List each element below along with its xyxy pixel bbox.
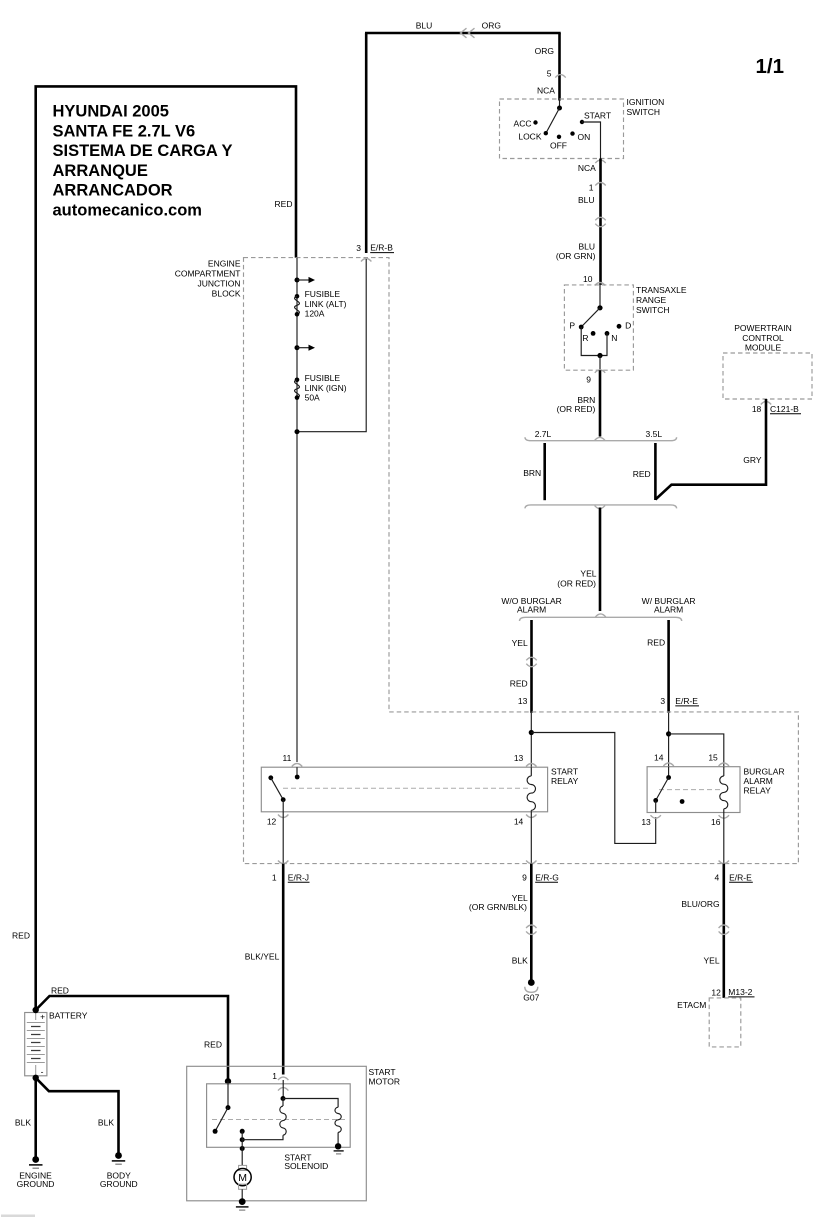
svg-text:RED: RED (12, 930, 30, 940)
svg-text:3: 3 (660, 696, 665, 706)
svg-text:LOCK: LOCK (518, 132, 541, 142)
connector start motor pin 1 (278, 1077, 288, 1080)
pin 16 label (711, 817, 721, 827)
fusible link (IGN) 50A (295, 378, 300, 400)
option bar bottom (525, 505, 677, 509)
wire BRN (OR RED) to option bar (599, 370, 602, 436)
svg-text:FUSIBLE: FUSIBLE (305, 289, 341, 299)
motor M armature (234, 1165, 251, 1201)
battery label (49, 1010, 88, 1020)
svg-text:E/R-E: E/R-E (729, 872, 752, 882)
svg-text:GRY: GRY (743, 455, 762, 465)
label RED on left battery wire (12, 930, 30, 940)
wire BLK battery negative to body ground (36, 1078, 119, 1156)
svg-text:14: 14 (654, 752, 664, 762)
svg-text:COMPARTMENT: COMPARTMENT (175, 268, 241, 278)
svg-text:P: P (569, 321, 575, 331)
solenoid output contact column (240, 1129, 245, 1166)
svg-text:IGNITION: IGNITION (627, 97, 665, 107)
svg-text:2.7L: 2.7L (535, 429, 552, 439)
svg-text:E/R-B: E/R-B (370, 242, 393, 252)
connector start relay pin 11 (292, 764, 302, 767)
svg-text:(OR GRN/BLK): (OR GRN/BLK) (469, 902, 527, 912)
svg-text:3: 3 (356, 243, 361, 253)
svg-text:M: M (238, 1172, 247, 1184)
connector pin 5 (555, 75, 565, 78)
svg-text:+: + (40, 1012, 45, 1022)
svg-text:CONTROL: CONTROL (742, 333, 784, 343)
option bar 2.7L/3.5L top (525, 437, 677, 441)
svg-text:14: 14 (514, 817, 524, 827)
connector boundary exit E/R-E (719, 861, 729, 864)
label NCA above ignition switch (537, 85, 555, 95)
ground engine (17, 1156, 55, 1189)
node battery negative terminal (33, 1075, 39, 1081)
label 3.5L (646, 429, 663, 439)
svg-text:-: - (41, 1067, 44, 1077)
wire E/R-B branch inside junction block (297, 259, 366, 432)
start motor label (369, 1067, 400, 1086)
svg-text:50A: 50A (305, 393, 320, 403)
pin 3 connector E/R-E (660, 696, 699, 706)
svg-text:4: 4 (714, 872, 719, 882)
pin 14 label (514, 817, 524, 827)
wire pin 14 down to boundary (530, 812, 532, 864)
svg-text:YEL: YEL (512, 638, 528, 648)
ignition switch U1 dashed box (500, 99, 624, 159)
svg-text:RED: RED (204, 1039, 222, 1049)
node junction block output (295, 429, 300, 434)
svg-text:M13-2: M13-2 (728, 987, 752, 997)
svg-text:SOLENOID: SOLENOID (284, 1161, 328, 1171)
page number 1/1 (756, 55, 785, 78)
svg-text:1: 1 (272, 1071, 277, 1081)
start relay coil (527, 767, 535, 812)
svg-text:13: 13 (514, 753, 524, 763)
svg-text:YEL: YEL (580, 569, 596, 579)
start relay mechanical dashed link (283, 787, 529, 789)
svg-text:RED: RED (633, 469, 651, 479)
svg-text:START: START (551, 766, 578, 776)
label ORG vertical (535, 46, 554, 56)
connector transaxle entry (595, 283, 605, 286)
transaxle switch internals (579, 285, 622, 370)
svg-text:BURGLAR: BURGLAR (744, 767, 785, 777)
pin 12 connector M13-2 (711, 987, 754, 998)
wire ORG vertical down to ignition switch (558, 33, 561, 101)
svg-text:R: R (582, 333, 588, 343)
start motor M1 outer box (187, 1066, 367, 1201)
label RED on title box right wire (275, 199, 293, 209)
battery B1 (25, 1012, 47, 1077)
connector inline BLU/ORG-YEL (719, 925, 729, 934)
svg-text:E/R-E: E/R-E (675, 696, 698, 706)
wire BLK/YEL into solenoid (282, 1080, 284, 1099)
label BLU (578, 195, 595, 205)
svg-text:(OR RED): (OR RED) (557, 404, 596, 414)
fusible link (ALT) label (305, 289, 347, 319)
label GRY (743, 455, 762, 465)
pin 9 (586, 374, 591, 384)
label BRN (OR RED) (557, 395, 596, 414)
label BLU/ORG (681, 899, 719, 909)
wire RED battery positive to start motor (36, 996, 228, 1081)
pin 13 label (514, 753, 524, 763)
svg-text:3.5L: 3.5L (646, 429, 663, 439)
wire YEL (OR RED) down to alarm option bar (599, 508, 602, 612)
svg-text:BLK/YEL: BLK/YEL (245, 951, 280, 961)
label YEL (OR GRN/BLK) (469, 893, 528, 912)
connector bar1 center (595, 437, 605, 440)
svg-text:15: 15 (708, 752, 718, 762)
label RED (647, 637, 665, 647)
ground body (100, 1152, 138, 1189)
pin 1 connector E/R-J (272, 872, 310, 882)
svg-text:E/R-G: E/R-G (535, 872, 559, 882)
label BLK (512, 955, 528, 965)
powertrain control module dashed box (723, 353, 812, 399)
burglar relay coil (720, 767, 728, 813)
svg-text:BATTERY: BATTERY (49, 1010, 88, 1020)
wire RED right drop to burglar relay (667, 620, 670, 713)
connector inline BLU (595, 217, 605, 226)
start relay label (551, 766, 579, 786)
connector bar2 center (595, 506, 605, 509)
svg-text:RED: RED (647, 637, 665, 647)
svg-text:10: 10 (583, 274, 593, 284)
fusible link (IGN) label (305, 373, 347, 402)
connector boundary exit E/R-J (278, 861, 288, 864)
svg-text:11: 11 (282, 753, 291, 763)
wire to start relay pin 13 inside boundary (530, 713, 532, 767)
svg-text:NCA: NCA (537, 85, 555, 95)
wire E/R-E feed inside boundary to burglar relay (668, 713, 670, 767)
svg-text:RED: RED (275, 199, 293, 209)
start relay K1 box (261, 767, 547, 812)
ground G07 (523, 979, 539, 1003)
label 2.7L (535, 429, 552, 439)
svg-text:ORG: ORG (535, 46, 554, 56)
svg-text:ALARM: ALARM (744, 776, 773, 786)
wire top horizontal BLU/ORG (365, 32, 561, 35)
svg-text:E/R-J: E/R-J (288, 872, 309, 882)
node junction with arrow tap to alternator (295, 277, 316, 283)
label RED battery jumper (51, 986, 69, 996)
svg-text:13: 13 (641, 817, 651, 827)
svg-text:5: 5 (547, 68, 552, 78)
svg-text:START: START (584, 110, 611, 120)
wire NCA/BLU from ignition to transaxle switch (599, 159, 602, 285)
svg-text:ENGINE: ENGINE (208, 258, 241, 268)
pin 3 connector E/R-B (356, 242, 394, 252)
svg-text:RED: RED (510, 678, 528, 688)
wire BLK battery negative to engine ground (34, 1078, 37, 1160)
transaxle range switch dashed box (564, 285, 633, 370)
pin 10 (583, 274, 593, 284)
svg-text:1: 1 (272, 872, 277, 882)
connector inline YEL/RED (526, 657, 536, 666)
connector burglar relay pin 15 (719, 763, 729, 766)
ignition switch label (627, 97, 665, 117)
engine compartment junction block / engine room dashed boundary (244, 258, 799, 864)
label NCA below ignition (578, 163, 596, 173)
svg-text:(OR GRN): (OR GRN) (556, 251, 596, 261)
wire link start relay node to burglar relay pin 13 (531, 733, 655, 844)
ETACM label (677, 1000, 706, 1010)
svg-text:ACC: ACC (514, 118, 532, 128)
label BLK/YEL (245, 951, 280, 961)
svg-text:HYUNDAI 2005: HYUNDAI 2005 (53, 103, 169, 121)
svg-text:18: 18 (752, 404, 762, 414)
engine compartment junction block label (175, 258, 241, 298)
fusible link (ALT) 120A (295, 294, 300, 317)
ignition switch position labels (514, 110, 612, 150)
powertrain control module label (734, 323, 791, 353)
connector transaxle exit (595, 370, 605, 373)
svg-text:LINK (ALT): LINK (ALT) (305, 299, 347, 309)
svg-text:POWERTRAIN: POWERTRAIN (734, 323, 791, 333)
node RED feed inside start motor (225, 1078, 231, 1084)
label BLU (OR GRN) (556, 242, 596, 261)
connector boundary exit E/R-G (526, 861, 536, 864)
start solenoid label (284, 1152, 328, 1171)
label RED drop to start motor (204, 1039, 222, 1049)
label BLK (98, 1117, 114, 1127)
label YEL (512, 638, 528, 648)
connector burglar relay pin 16 (719, 815, 729, 818)
start solenoid inner box (207, 1084, 351, 1148)
svg-text:LINK (IGN): LINK (IGN) (305, 383, 347, 393)
ground start motor (236, 1198, 249, 1210)
svg-text:YEL: YEL (704, 955, 720, 965)
connector inline BLU/ORG (461, 28, 475, 38)
svg-text:9: 9 (586, 374, 591, 384)
solenoid pull-in coil (242, 1099, 286, 1140)
watermark fragment bottom left (1, 1215, 35, 1217)
burglar alarm relay K2 box (647, 767, 740, 813)
svg-text:automecanico.com: automecanico.com (53, 202, 202, 220)
label W/O BURGLAR ALARM (501, 596, 561, 615)
wire pin 16 down to boundary (723, 813, 725, 864)
svg-text:BLK: BLK (512, 955, 528, 965)
pin 18 (752, 404, 762, 414)
svg-text:RANGE: RANGE (636, 295, 667, 305)
svg-text:12: 12 (711, 988, 721, 998)
node start relay feed junction (529, 730, 534, 735)
pin 13 label (641, 817, 651, 827)
title block box and RED feed wires from battery (36, 86, 296, 1010)
wire BRN drop 2.7L (543, 443, 546, 500)
svg-text:FUSIBLE: FUSIBLE (305, 373, 341, 383)
svg-text:16: 16 (711, 817, 721, 827)
svg-text:BLK: BLK (15, 1117, 31, 1127)
node junction with arrow tap (295, 345, 316, 351)
svg-text:D: D (625, 321, 631, 331)
svg-text:(OR RED): (OR RED) (557, 578, 596, 588)
ETACM dashed box (709, 998, 741, 1047)
connector burglar relay pin 13 (651, 815, 661, 818)
label YEL (OR RED) (557, 569, 596, 589)
svg-text:RED: RED (51, 986, 69, 996)
svg-text:MOTOR: MOTOR (369, 1076, 400, 1086)
svg-text:GROUND: GROUND (100, 1179, 138, 1189)
pin 13 above boundary (518, 696, 528, 706)
connector inline YEL/BLK (526, 925, 536, 934)
label ORG top (482, 21, 501, 31)
svg-text:RELAY: RELAY (551, 776, 579, 786)
pin 15 label (708, 752, 718, 762)
svg-text:1/1: 1/1 (756, 55, 785, 78)
label BLU top (416, 21, 433, 31)
burglar relay mechanical dashed link (659, 789, 722, 791)
label RED (633, 469, 651, 479)
svg-text:BRN: BRN (523, 468, 541, 478)
start relay switch contacts (268, 767, 299, 812)
svg-text:NCA: NCA (578, 163, 596, 173)
svg-text:BLK: BLK (98, 1117, 114, 1127)
pin 14 label (654, 752, 664, 762)
label RED (510, 678, 528, 688)
svg-text:SWITCH: SWITCH (636, 305, 670, 315)
connector at ignition switch exit (595, 160, 605, 163)
option bar burglar alarm (520, 617, 682, 621)
title text (53, 103, 233, 220)
svg-text:ALARM: ALARM (654, 605, 683, 615)
burglar alarm relay label (744, 767, 785, 796)
wire YEL (OR GRN/BLK) to ground (530, 864, 533, 983)
pin 1 (589, 182, 594, 192)
svg-text:BLU: BLU (416, 21, 433, 31)
wire GRY from PCM (655, 399, 766, 500)
svg-text:SANTA FE 2.7L V6: SANTA FE 2.7L V6 (53, 122, 196, 140)
connector solenoid entry (278, 1088, 288, 1091)
label BRN (523, 468, 541, 478)
connector start relay pin 12 (278, 815, 288, 818)
burglar relay switch contacts (653, 767, 684, 813)
svg-text:N: N (611, 333, 617, 343)
pin 12 label (267, 817, 277, 827)
pin 1 label (272, 1071, 277, 1081)
label W/ BURGLAR ALARM (642, 596, 696, 615)
pin 9 connector E/R-G (522, 872, 559, 882)
connector start relay pin 14 (526, 815, 536, 818)
svg-text:ARRANCADOR: ARRANCADOR (53, 182, 173, 200)
svg-text:C121-B: C121-B (770, 404, 799, 414)
svg-text:1: 1 (589, 182, 594, 192)
ignition switch internals (533, 100, 600, 159)
pin 5 (547, 68, 552, 78)
svg-text:ALARM: ALARM (517, 605, 546, 615)
pin 4 connector E/R-E (714, 872, 752, 882)
svg-text:9: 9 (522, 872, 527, 882)
connector start relay pin 13 (526, 764, 536, 767)
svg-text:120A: 120A (305, 309, 325, 319)
svg-text:ORG: ORG (482, 21, 501, 31)
label YEL (704, 955, 720, 965)
svg-text:ON: ON (578, 132, 591, 142)
wire junction block main bus (296, 258, 298, 762)
svg-text:ETACM: ETACM (677, 1000, 706, 1010)
wire BLU/ORG to ETACM (722, 864, 725, 998)
svg-text:13: 13 (518, 696, 528, 706)
wire RED drop 3.5L (654, 443, 657, 500)
solenoid mechanical dashed link (212, 1119, 345, 1121)
svg-text:G07: G07 (523, 993, 539, 1003)
pin 11 (282, 753, 291, 763)
transaxle range switch label (636, 285, 687, 315)
wire pin 12 down to boundary (282, 812, 284, 864)
svg-text:SISTEMA DE CARGA Y: SISTEMA DE CARGA Y (53, 142, 233, 160)
svg-text:OFF: OFF (550, 140, 567, 150)
svg-text:BLU/ORG: BLU/ORG (681, 899, 719, 909)
connector bar3 center (595, 614, 605, 617)
svg-text:TRANSAXLE: TRANSAXLE (636, 285, 687, 295)
wire branch to burglar relay pin 15 (669, 734, 724, 767)
svg-text:RELAY: RELAY (744, 786, 772, 796)
connector E/R-B entry (361, 259, 371, 262)
transaxle position letters (569, 321, 631, 343)
node battery positive terminal (33, 1007, 39, 1013)
svg-text:BLU: BLU (578, 195, 595, 205)
wire BLK/YEL to start motor (282, 864, 285, 1075)
svg-text:JUNCTION: JUNCTION (198, 278, 241, 288)
node burglar relay feed junction (666, 731, 671, 736)
svg-text:MODULE: MODULE (745, 343, 782, 353)
svg-text:GROUND: GROUND (17, 1179, 55, 1189)
svg-text:SWITCH: SWITCH (627, 107, 661, 117)
ground hold-in coil (334, 1143, 344, 1154)
label BLK (15, 1117, 31, 1127)
node solenoid coil feed (281, 1096, 286, 1101)
svg-text:ARRANQUE: ARRANQUE (53, 162, 148, 180)
solenoid hold-in coil (283, 1099, 341, 1147)
wire BLU vertical from junction block to top (365, 33, 368, 253)
connector pin 1 (595, 183, 605, 186)
wire YEL/RED left drop to start relay (530, 620, 533, 713)
solenoid main contacts (213, 1081, 231, 1134)
connector PCM exit (761, 402, 771, 405)
svg-text:BLOCK: BLOCK (212, 288, 241, 298)
connector C121-B (770, 404, 801, 414)
svg-text:12: 12 (267, 817, 277, 827)
connector burglar relay pin 14 (663, 763, 673, 766)
